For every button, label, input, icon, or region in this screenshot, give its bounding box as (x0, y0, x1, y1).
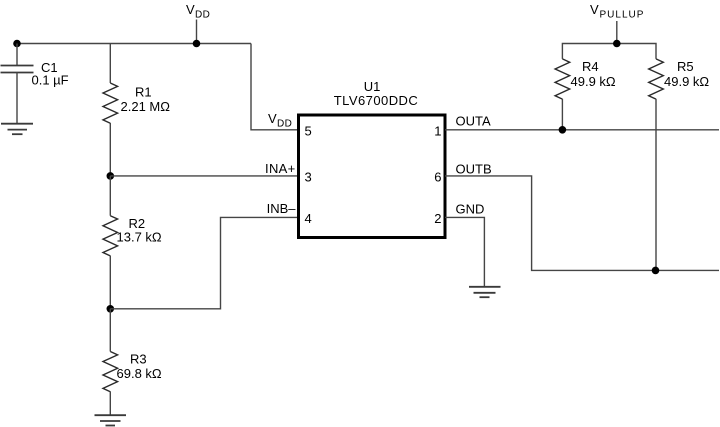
wire: OUTB net (445, 176, 719, 271)
resistor R3 (103, 309, 118, 415)
node: junction VDD stub / top rail (193, 40, 201, 48)
svg-text:5: 5 (305, 123, 312, 138)
resistor R2 (103, 176, 118, 309)
IC U1 TLV6700DDC (299, 115, 446, 238)
svg-text:PULLUP: PULLUP (600, 10, 645, 21)
svg-text:2: 2 (434, 211, 441, 226)
svg-text:R1: R1 (135, 84, 152, 99)
ground (below pin 2) (469, 287, 501, 297)
svg-text:V: V (268, 111, 277, 126)
node: junction VPULLUP stub / rail (613, 40, 621, 48)
svg-text:TLV6700DDC: TLV6700DDC (334, 93, 418, 108)
wire: pullup rail (562, 44, 656, 59)
pin 5 label VDD (268, 111, 292, 129)
svg-text:R4: R4 (582, 59, 599, 74)
power VDD (top) (186, 2, 210, 44)
svg-text:1: 1 (434, 123, 441, 138)
svg-text:DD: DD (277, 118, 292, 129)
ground (below C1) (1, 124, 33, 135)
svg-text:49.9 kΩ: 49.9 kΩ (571, 74, 616, 89)
svg-text:13.7 kΩ: 13.7 kΩ (117, 229, 162, 244)
svg-text:2.21 MΩ: 2.21 MΩ (121, 99, 171, 114)
ground (below R3) (95, 415, 127, 425)
svg-text:6: 6 (434, 169, 441, 184)
wire: INB net (junction up to pin 4) (110, 217, 297, 308)
svg-text:V: V (186, 2, 195, 17)
svg-text:R5: R5 (677, 59, 694, 74)
svg-text:INB–: INB– (267, 201, 297, 216)
svg-text:GND: GND (456, 201, 485, 216)
wire: top rail to pin 5 (251, 44, 297, 130)
svg-text:DD: DD (195, 10, 210, 21)
svg-text:4: 4 (305, 211, 312, 226)
wire: VDD top rail (17, 43, 251, 45)
svg-text:49.9 kΩ: 49.9 kΩ (664, 74, 709, 89)
node: junction R4 / OUTA (559, 126, 567, 134)
svg-text:0.1 µF: 0.1 µF (32, 73, 69, 88)
capacitor C1 (1, 44, 34, 124)
wire: OUTA net (445, 129, 719, 131)
svg-text:U1: U1 (364, 79, 381, 94)
wire: GND pin to ground (445, 217, 484, 286)
svg-text:OUTA: OUTA (456, 113, 491, 128)
svg-text:69.8 kΩ: 69.8 kΩ (117, 366, 162, 381)
svg-text:V: V (590, 2, 599, 17)
wire: INA+ net to pin 3 (110, 175, 297, 177)
node: junction R5 / OUTB (652, 267, 660, 275)
resistor R1 (103, 44, 118, 176)
node: junction R2 / R3 / INB (107, 305, 115, 313)
svg-text:3: 3 (305, 169, 312, 184)
power VPULLUP (590, 2, 644, 43)
node: junction R1 / R2 / INA+ (107, 172, 115, 180)
resistor R4 (555, 59, 570, 130)
svg-text:INA+: INA+ (265, 161, 295, 176)
node: junction C1 / top rail (13, 40, 21, 48)
svg-text:R3: R3 (130, 352, 147, 367)
resistor R5 (649, 59, 664, 271)
svg-text:OUTB: OUTB (456, 162, 492, 177)
